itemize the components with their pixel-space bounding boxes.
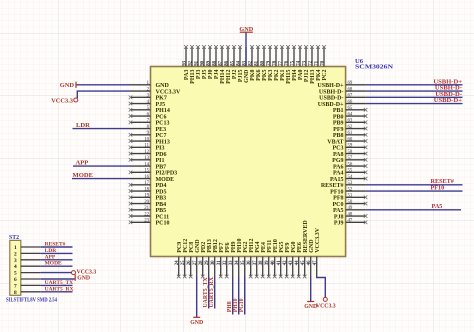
svg-text:32: 32 (223, 260, 228, 265)
svg-text:PC3: PC3 (333, 146, 344, 152)
pin 65 PB1 (right) (333, 106, 368, 114)
svg-text:21: 21 (144, 206, 149, 211)
svg-text:PA8: PA8 (333, 152, 344, 158)
svg-text:RESET#: RESET# (45, 242, 66, 248)
wire APP (73, 165, 131, 167)
connector ST2 body (10, 240, 21, 295)
wire bottom VCC3.3 (317, 277, 326, 298)
pin 62 PF9 (right) (333, 125, 367, 133)
pin 45 RESERVED (bottom) (301, 220, 309, 279)
svg-text:11: 11 (144, 144, 149, 149)
pin 87 PH14 (top) (218, 45, 226, 84)
power port VCC3.3 bottom (323, 297, 327, 301)
svg-text:33: 33 (229, 260, 234, 265)
svg-text:PG9: PG9 (332, 158, 343, 164)
pin 63 PB9 (right) (333, 119, 368, 127)
pin 92 PH13 (top) (188, 45, 196, 84)
svg-text:35: 35 (241, 260, 246, 265)
svg-text:PI3: PI3 (156, 146, 165, 152)
pin 85 PJ2 (top) (230, 45, 238, 79)
pin 72 PH13 (top) (308, 45, 316, 84)
svg-text:14: 14 (144, 162, 149, 167)
svg-text:34: 34 (235, 260, 240, 265)
ST2 pin 7 (14, 280, 73, 290)
svg-text:28: 28 (199, 260, 204, 265)
pin 89 PJ0 (top) (206, 45, 214, 79)
svg-text:24: 24 (175, 260, 180, 265)
svg-text:LDR: LDR (76, 122, 90, 129)
wire USBD-D+ (366, 103, 463, 105)
svg-text:PC2: PC2 (322, 70, 328, 81)
wire PH10 (238, 277, 240, 315)
pin 35 PG2 (bottom) (241, 241, 249, 276)
svg-text:1: 1 (14, 245, 17, 251)
svg-text:USBD-D+: USBD-D+ (318, 102, 344, 108)
pin 16 MODE (left) (131, 175, 175, 183)
pin 23 PC10 (left) (129, 219, 170, 227)
svg-text:LDR: LDR (45, 248, 58, 254)
svg-text:63: 63 (348, 119, 353, 124)
svg-text:APP: APP (45, 254, 56, 260)
pin 50 PC0 (right) (333, 200, 368, 208)
ST2 pin 4 (14, 261, 73, 271)
svg-text:USBD-D+: USBD-D+ (434, 97, 463, 104)
svg-text:SCM3026N: SCM3026N (355, 63, 393, 70)
svg-text:MODE: MODE (45, 261, 62, 267)
wire RESET# right (366, 184, 463, 186)
svg-text:PB5: PB5 (156, 208, 167, 214)
pin 77 PK1 (top) (278, 45, 286, 81)
svg-text:30: 30 (211, 260, 216, 265)
svg-text:36: 36 (247, 260, 252, 265)
svg-text:27: 27 (193, 260, 198, 265)
svg-text:81: 81 (254, 60, 259, 65)
svg-text:20: 20 (144, 200, 149, 205)
pin 48 PJ8 (right) (334, 212, 368, 220)
pin 61 PB8 (right) (333, 131, 368, 139)
svg-text:PE3: PE3 (156, 127, 167, 133)
ST2 pin 3 (14, 254, 73, 264)
wire bottom GND (196, 277, 198, 318)
pin 28 PD2 (bottom) (199, 242, 207, 278)
svg-text:PC13: PC13 (156, 121, 170, 127)
svg-text:PA4: PA4 (333, 171, 344, 177)
svg-text:92: 92 (188, 60, 193, 65)
pin 76 PH15 (top) (284, 45, 292, 84)
pin 60 VBAT (right) (327, 137, 367, 145)
svg-text:PD4: PD4 (156, 183, 167, 189)
svg-text:UART5_TX: UART5_TX (45, 280, 74, 286)
svg-text:58: 58 (348, 150, 353, 155)
pin 4 PJ5 (left) (129, 100, 165, 108)
pin 26 PC8 (bottom) (187, 242, 195, 278)
wire LDR (73, 128, 131, 130)
svg-text:53: 53 (348, 181, 353, 186)
svg-text:46: 46 (307, 260, 312, 265)
svg-text:7: 7 (14, 283, 17, 289)
power port GND bottom-right (307, 301, 314, 303)
wire USBD-D- (366, 96, 463, 98)
svg-text:15: 15 (144, 169, 149, 174)
svg-text:UART5_RX: UART5_RX (209, 276, 215, 307)
svg-text:64: 64 (348, 112, 353, 117)
svg-text:71: 71 (314, 60, 319, 65)
pin 37 PG4 (bottom) (253, 241, 261, 278)
ST2 pin 2 (14, 248, 73, 258)
pin 69 USBH-D+ (right) (317, 81, 365, 89)
svg-text:55: 55 (348, 169, 353, 174)
ST2 pin 8 (14, 286, 74, 296)
svg-text:2: 2 (14, 251, 17, 257)
svg-text:59: 59 (348, 144, 353, 149)
wire MODE (72, 178, 131, 180)
pin 6 PC6 (left) (129, 112, 167, 120)
svg-text:GND: GND (77, 275, 90, 281)
wire bottom-right GND (310, 277, 312, 302)
svg-text:GND: GND (60, 82, 75, 89)
svg-text:PF10: PF10 (330, 189, 343, 195)
svg-text:79: 79 (266, 60, 271, 65)
power port GND top (240, 31, 253, 33)
pin 43 PG0 (bottom) (289, 241, 297, 278)
pin 70 PC2 (top) (320, 45, 328, 80)
svg-text:93: 93 (182, 60, 187, 65)
svg-text:90: 90 (200, 60, 205, 65)
wire pin2 VCC3.3V (77, 91, 130, 98)
pin 24 PC9 (bottom) (175, 242, 183, 278)
svg-text:88: 88 (212, 60, 217, 65)
pin 19 PB3 (left) (129, 194, 166, 202)
pin 93 PA3 (top) (182, 45, 190, 80)
pin 27 GND (bottom) (193, 239, 201, 277)
svg-text:91: 91 (194, 60, 199, 65)
svg-text:PC6: PC6 (156, 114, 167, 120)
pin 44 PE6 (bottom) (295, 242, 303, 278)
pin 33 PH9 (bottom) (229, 241, 237, 276)
svg-text:PG10: PG10 (239, 298, 245, 312)
svg-text:PF8: PF8 (333, 196, 343, 202)
power port GND (bar) left (75, 82, 77, 88)
pin 22 PC11 (left) (129, 212, 169, 220)
svg-text:47: 47 (348, 219, 353, 224)
pin 2 VCC3.3V (left) (131, 87, 181, 95)
svg-text:MODE: MODE (73, 172, 94, 179)
pin 21 PB5 (left) (129, 206, 166, 214)
svg-text:22: 22 (144, 212, 149, 217)
svg-text:76: 76 (284, 60, 289, 65)
pin 73 PJ12 (top) (302, 45, 310, 82)
power port VCC3.3 at ST2 pin5 (72, 271, 76, 275)
pin 49 PA5 (right) (333, 206, 366, 214)
pin 46 GND (bottom) (307, 239, 315, 277)
svg-text:PB7: PB7 (156, 164, 167, 170)
svg-text:57: 57 (348, 156, 353, 161)
svg-text:PC7: PC7 (156, 133, 167, 139)
pin 41 PG5 (bottom) (277, 241, 285, 278)
svg-text:VCC3.3: VCC3.3 (51, 97, 73, 104)
wire PA5 right (366, 209, 461, 211)
pin 55 PA4 (right) (333, 169, 367, 177)
svg-text:60: 60 (348, 137, 353, 142)
svg-text:USBD-D-: USBD-D- (319, 96, 343, 102)
svg-text:25: 25 (181, 260, 186, 265)
pin 59 PC3 (right) (333, 144, 368, 152)
svg-text:54: 54 (348, 175, 353, 180)
svg-text:18: 18 (144, 187, 149, 192)
pin 56 PA6 (right) (333, 162, 367, 170)
svg-text:PH13: PH13 (156, 139, 170, 145)
svg-text:61: 61 (348, 131, 353, 136)
pin 57 PG9 (right) (332, 156, 367, 164)
pin 9 PC7 (left) (129, 131, 167, 139)
pin 58 PA8 (right) (333, 150, 367, 158)
svg-text:GND: GND (190, 320, 203, 326)
svg-text:5: 5 (14, 271, 17, 277)
svg-text:VCC3.3V: VCC3.3V (156, 89, 181, 95)
wire UART5_TX (208, 277, 210, 309)
svg-text:31: 31 (217, 260, 222, 265)
pin 51 PF8 (right) (333, 194, 367, 202)
svg-text:PH14: PH14 (156, 108, 170, 114)
pin 74 PA0 (top) (296, 45, 304, 80)
svg-text:PC10: PC10 (156, 221, 170, 227)
svg-text:USBH-D+: USBH-D+ (317, 83, 344, 89)
pin 25 PC12 (bottom) (181, 239, 189, 278)
svg-text:10: 10 (144, 137, 149, 142)
svg-text:67: 67 (348, 94, 353, 99)
svg-text:GND: GND (156, 83, 170, 89)
svg-text:50: 50 (348, 200, 353, 205)
svg-text:82: 82 (248, 60, 253, 65)
svg-text:49: 49 (348, 206, 353, 211)
wire pin1 GND (76, 84, 131, 86)
svg-text:45: 45 (301, 260, 306, 265)
wire top GND (245, 32, 247, 66)
pin 36 PH12 (bottom) (247, 238, 255, 278)
pin 90 PJ5 (top) (200, 45, 208, 79)
svg-text:86: 86 (224, 60, 229, 65)
svg-text:PA5: PA5 (333, 208, 344, 214)
wire UART5_RX (214, 277, 216, 309)
svg-text:41: 41 (277, 260, 282, 265)
svg-text:39: 39 (265, 260, 270, 265)
svg-text:48: 48 (348, 212, 353, 217)
svg-text:29: 29 (205, 260, 210, 265)
svg-text:89: 89 (206, 60, 211, 65)
pin 38 PE4 (bottom) (259, 242, 267, 278)
svg-text:17: 17 (144, 181, 149, 186)
wire PH8 (232, 277, 234, 315)
svg-text:84: 84 (236, 60, 241, 65)
svg-text:PB8: PB8 (333, 133, 344, 139)
svg-text:40: 40 (271, 260, 276, 265)
pin 11 PI3 (left) (129, 144, 165, 152)
svg-text:65: 65 (348, 106, 353, 111)
svg-text:PJ8: PJ8 (334, 214, 344, 220)
pin 82 PK0 (top) (248, 45, 256, 81)
pin 71 PK4 (top) (314, 45, 322, 81)
svg-text:PF10: PF10 (431, 184, 445, 191)
pin 30 PB12 (bottom) (211, 239, 219, 276)
pin 12 PD6 (left) (129, 150, 167, 158)
pin 14 PB7 (left) (131, 162, 167, 170)
svg-text:26: 26 (187, 260, 192, 265)
op IC U6 body (151, 67, 346, 257)
pin 68 USBH-D- (right) (319, 87, 366, 95)
svg-text:56: 56 (348, 162, 353, 167)
svg-text:PB4: PB4 (156, 202, 167, 208)
svg-text:PD5: PD5 (156, 189, 167, 195)
wire USBH-D- (366, 90, 463, 92)
pin 64 PB0 (right) (333, 112, 368, 120)
pin 86 PH12 (top) (224, 45, 232, 84)
svg-text:PB0: PB0 (333, 114, 344, 120)
svg-text:13: 13 (144, 156, 149, 161)
svg-text:PJ5: PJ5 (156, 102, 166, 108)
svg-text:85: 85 (230, 60, 235, 65)
pin 53 RESET# (right) (321, 181, 366, 189)
power port VCC3.3 (circle) left (74, 98, 78, 102)
pin 20 PB4 (left) (129, 200, 166, 208)
svg-text:USBH-D-: USBH-D- (319, 89, 344, 95)
svg-text:12: 12 (144, 150, 149, 155)
power port GND bottom (193, 316, 200, 318)
pin 83 GND (top) (242, 47, 250, 83)
pin 10 PH13 (left) (129, 137, 170, 145)
power port GND at ST2 pin6 (74, 274, 76, 280)
svg-text:GND: GND (239, 26, 253, 33)
svg-text:70: 70 (320, 60, 325, 65)
svg-text:VBAT: VBAT (327, 139, 343, 145)
svg-text:66: 66 (348, 100, 353, 105)
svg-text:PA15: PA15 (330, 177, 344, 183)
svg-text:78: 78 (272, 60, 277, 65)
wire PF10 right (366, 190, 463, 192)
pin 52 PF10 (right) (330, 187, 365, 195)
svg-text:PF9: PF9 (333, 127, 343, 133)
svg-text:72: 72 (308, 60, 313, 65)
svg-text:74: 74 (296, 60, 301, 65)
svg-text:4: 4 (14, 264, 17, 270)
svg-text:16: 16 (144, 175, 149, 180)
wire PG10 (244, 277, 246, 315)
svg-text:68: 68 (348, 87, 353, 92)
svg-text:3: 3 (14, 258, 17, 264)
svg-text:77: 77 (278, 60, 283, 65)
pin 29 PB13 (bottom) (205, 239, 213, 276)
svg-text:80: 80 (260, 60, 265, 65)
pin 67 USBD-D- (right) (319, 94, 365, 102)
pin 54 PA15 (right) (330, 175, 367, 183)
wire USBH-D+ (366, 84, 463, 86)
pin 32 PF6 (bottom) (223, 242, 231, 278)
pin 34 PH10 (bottom) (235, 238, 243, 276)
pin 47 PJ9 (right) (334, 219, 368, 227)
svg-text:UART5_RX: UART5_RX (45, 286, 74, 292)
svg-text:PB3: PB3 (156, 196, 167, 202)
svg-text:44: 44 (295, 260, 300, 265)
pin 39 PF11 (bottom) (265, 240, 273, 278)
pin 3 PK7 (left) (129, 94, 167, 102)
svg-text:87: 87 (218, 60, 223, 65)
svg-text:PC11: PC11 (156, 214, 170, 220)
svg-text:APP: APP (76, 159, 89, 166)
svg-text:73: 73 (302, 60, 307, 65)
pin 7 PC13 (left) (129, 119, 170, 127)
pin 17 PD4 (left) (129, 181, 167, 189)
pin 13 PI1 (left) (129, 156, 165, 164)
pin 18 PD5 (left) (129, 187, 167, 195)
svg-text:52: 52 (348, 187, 353, 192)
svg-text:PI1: PI1 (156, 158, 165, 164)
pin 31 PF7 (bottom) (217, 242, 225, 278)
ST2 pin 5 (14, 271, 72, 277)
pin 5 PH14 (left) (129, 106, 170, 114)
pin 81 PK6 (top) (254, 45, 262, 81)
svg-text:75: 75 (290, 60, 295, 65)
svg-text:62: 62 (348, 125, 353, 130)
pin 1 GND (left) (131, 81, 170, 89)
svg-text:PC0: PC0 (333, 202, 344, 208)
pin 40 PE10 (bottom) (271, 239, 279, 278)
pin 78 PK2 (top) (272, 45, 280, 81)
pin 91 PJ3 (top) (194, 45, 202, 79)
svg-text:47: 47 (313, 260, 318, 265)
pin 88 PJ4 (top) (212, 45, 220, 79)
svg-text:PB9: PB9 (333, 121, 344, 127)
pin 80 PK5 (top) (260, 45, 268, 81)
svg-text:51: 51 (348, 194, 353, 199)
svg-text:6: 6 (14, 277, 17, 283)
svg-text:VCC3.3: VCC3.3 (316, 304, 336, 310)
svg-text:PK7: PK7 (156, 96, 167, 102)
svg-text:8: 8 (14, 290, 17, 296)
svg-text:PI2/PD3: PI2/PD3 (156, 171, 178, 177)
svg-text:PA6: PA6 (333, 164, 344, 170)
svg-text:PA5: PA5 (432, 203, 443, 210)
svg-text:PD6: PD6 (156, 152, 167, 158)
ST2 pin 6 (14, 277, 75, 283)
pin 15 PI2/PD3 (left) (129, 169, 177, 177)
svg-text:23: 23 (144, 219, 149, 224)
svg-text:37: 37 (253, 260, 258, 265)
ST2 pin 1 (14, 242, 73, 252)
pin 75 PH4 (top) (290, 45, 298, 81)
pin 8 PE3 (left) (131, 125, 167, 133)
pin 84 PJ15 (top) (236, 45, 244, 82)
svg-text:43: 43 (289, 260, 294, 265)
pin 79 PK3 (top) (266, 45, 274, 81)
svg-text:38: 38 (259, 260, 264, 265)
pin 66 USBD-D+ (right) (318, 100, 366, 108)
svg-text:VCC3.3V: VCC3.3V (315, 227, 321, 252)
svg-text:PJ9: PJ9 (334, 221, 344, 227)
svg-text:MODE: MODE (156, 177, 175, 183)
svg-text:19: 19 (144, 194, 149, 199)
svg-text:PB1: PB1 (333, 108, 344, 114)
svg-text:RESET#: RESET# (321, 183, 344, 189)
pin 47 VCC3.3V (bottom) (313, 227, 321, 276)
svg-text:69: 69 (348, 81, 353, 86)
pin 42 PF9 (bottom) (283, 242, 291, 278)
svg-text:SILSTIFTL8V SMD 2.54: SILSTIFTL8V SMD 2.54 (6, 298, 57, 304)
svg-text:42: 42 (283, 260, 288, 265)
